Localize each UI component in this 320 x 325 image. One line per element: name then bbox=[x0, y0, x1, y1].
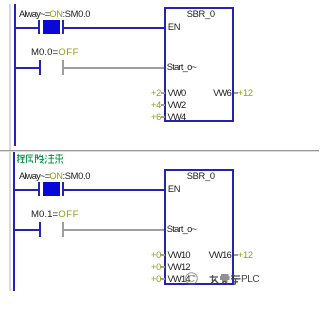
contact M0.0 right bar (grey) bbox=[62, 60, 64, 75]
U1 value +6 bbox=[140, 112, 161, 122]
U2 value +0 b bbox=[140, 262, 161, 272]
contact M0.0 left bar bbox=[39, 60, 41, 75]
watermark text 我爱学 (drawn strokes) bbox=[209, 274, 241, 285]
left power rail N1 bbox=[14, 4, 16, 146]
U2 pin EN bbox=[168, 184, 180, 194]
node label M0.0=OFF bbox=[31, 48, 79, 58]
U1 value +4 bbox=[140, 100, 161, 110]
U1 pin VW6 bbox=[195, 88, 231, 98]
subroutine block SBR_0 (U1) bbox=[164, 7, 234, 122]
U2 tick VW12 bbox=[161, 266, 165, 268]
node label Alway~=ON:SM0.0 bbox=[19, 9, 90, 19]
wire contact to EN (N2) bbox=[64, 189, 164, 191]
contact SM0.0 right bar bbox=[62, 20, 64, 35]
wire rail to contact SM0.0 bbox=[16, 27, 39, 29]
U2 pin VW14 bbox=[168, 274, 190, 284]
node label Alway~=ON:SM0.0 (N2) bbox=[19, 171, 90, 181]
U1 pin VW0 bbox=[168, 88, 186, 98]
U1 title SBR_0 bbox=[166, 9, 236, 19]
contact SM0.0 N2 energized fill bbox=[43, 182, 60, 196]
U2 tick VW14 bbox=[161, 278, 165, 280]
network separator bbox=[0, 150, 319, 151]
left power rail N2 bbox=[13, 152, 15, 291]
U1 pin EN bbox=[168, 22, 180, 32]
U1 pin VW2 bbox=[168, 100, 186, 110]
contact SM0.0 N2 left bar bbox=[38, 182, 40, 197]
U2 tick VW10 bbox=[161, 254, 165, 256]
U1 pin VW4 bbox=[168, 112, 186, 122]
U1 pin Start_o~ bbox=[167, 62, 196, 72]
node label M0.1=OFF bbox=[31, 210, 79, 220]
U1 tick VW0 bbox=[161, 92, 165, 94]
U1 tick VW4 bbox=[161, 116, 165, 118]
contact SM0.0 left bar bbox=[38, 20, 40, 35]
U2 value +0 a bbox=[140, 250, 161, 260]
U2 pin Start_o~ bbox=[167, 224, 196, 234]
U2 pin VW16 bbox=[195, 250, 231, 260]
watermark text PLC bbox=[241, 274, 259, 285]
U2 value +0 c bbox=[140, 274, 161, 284]
wire contact M0.0 to Start_o (grey) bbox=[64, 67, 164, 69]
wire contact M0.1 to Start_o (grey) bbox=[64, 229, 164, 231]
comment text 程序段注释 (drawn strokes) bbox=[16, 153, 63, 164]
U1 value +12 bbox=[238, 88, 253, 98]
contact M0.1 right bar (grey) bbox=[62, 222, 64, 237]
wire rail to contact M0.1 bbox=[15, 229, 39, 231]
U1 value +2 bbox=[140, 88, 161, 98]
margin rule bbox=[9, 4, 11, 291]
U2 value +12 bbox=[238, 250, 253, 260]
watermark logo bbox=[184, 271, 199, 286]
U2 pin VW10 bbox=[168, 250, 190, 260]
wire contact to EN bbox=[64, 27, 164, 29]
U2 tick VW16 out bbox=[234, 254, 238, 256]
wire rail to contact (N2) bbox=[15, 189, 39, 191]
U2 pin VW12 bbox=[168, 262, 190, 272]
wire rail to contact M0.0 bbox=[16, 67, 39, 69]
contact SM0.0 energized fill bbox=[43, 20, 60, 34]
contact M0.1 left bar bbox=[39, 222, 41, 237]
U1 tick VW2 bbox=[161, 104, 165, 106]
subroutine block SBR_0 (U2) bbox=[164, 169, 234, 285]
U1 tick VW6 out bbox=[234, 92, 238, 94]
contact SM0.0 N2 right bar bbox=[62, 182, 64, 197]
U2 title SBR_0 bbox=[166, 171, 236, 181]
